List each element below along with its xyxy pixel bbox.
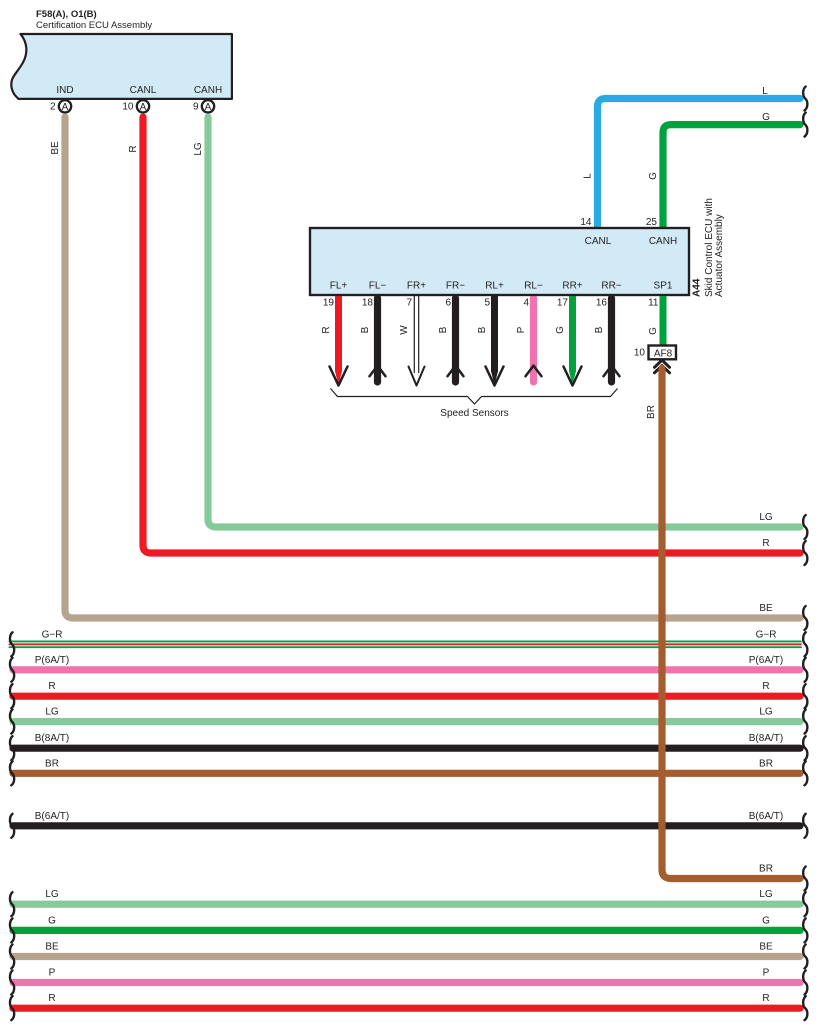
sensor wire FL- pin18 B up-arrow [360,298,386,382]
svg-text:BE: BE [759,603,773,614]
svg-text:B: B [594,326,605,333]
svg-text:P: P [763,968,770,979]
wire G (green) to CANH pin 25 [663,125,800,227]
svg-text:LG: LG [45,707,59,718]
svg-text:P: P [49,968,56,979]
svg-text:LG: LG [45,889,59,900]
bus wire P 2 [13,968,800,983]
svg-text:Actuator Assembly: Actuator Assembly [714,214,725,297]
svg-text:B: B [477,326,488,333]
svg-text:A: A [140,102,147,113]
svg-text:LG: LG [193,142,204,156]
wire G from SP1 pin11 [660,296,667,347]
svg-text:LG: LG [759,707,773,718]
svg-text:10: 10 [122,102,134,113]
sensor wire RL+ pin5 B down-arrow [477,295,504,386]
svg-text:BR: BR [45,758,59,769]
svg-text:CANL: CANL [585,236,612,247]
sensor wire RL- pin4 P up-arrow [516,298,542,382]
wire BR vertical from AF8 [662,369,800,879]
svg-text:L: L [583,173,594,179]
shield chevrons [655,360,670,367]
svg-text:G: G [555,326,566,334]
svg-text:9: 9 [193,102,199,113]
svg-text:LG: LG [759,512,773,523]
svg-text:18: 18 [362,298,374,309]
svg-text:14: 14 [580,217,592,228]
svg-text:R: R [762,681,769,692]
sensor wire RR+ pin17 G down-arrow [555,295,582,386]
svg-text:P: P [516,326,527,333]
svg-text:2: 2 [50,102,56,113]
svg-text:Certification ECU Assembly: Certification ECU Assembly [36,20,152,31]
svg-text:L: L [762,86,768,97]
bus wire LG [13,707,800,722]
svg-text:4: 4 [523,298,529,309]
svg-text:B(8A/T): B(8A/T) [749,733,783,744]
bus wire BE 2 [13,942,800,957]
svg-text:17: 17 [557,298,569,309]
svg-text:B(6A/T): B(6A/T) [35,811,69,822]
svg-text:BE: BE [50,141,61,155]
svg-text:6: 6 [445,298,451,309]
svg-text:G−R: G−R [756,629,777,640]
bus wire B(6A/T) [13,811,800,826]
bus wire B(8A/T) [13,733,800,748]
connector circle A pin 2 [59,100,71,112]
svg-text:W: W [399,325,410,335]
svg-text:AF8: AF8 [654,348,673,359]
svg-text:11: 11 [648,298,659,309]
svg-text:G: G [648,172,659,180]
svg-text:A: A [62,102,69,113]
bus wire P(6A/T) [13,655,800,670]
svg-text:G: G [762,112,770,123]
bus wire G 2 [13,915,800,930]
bus wire LG 2 [13,889,800,904]
svg-text:19: 19 [323,298,335,309]
svg-text:B(6A/T): B(6A/T) [749,811,783,822]
svg-text:LG: LG [759,889,773,900]
svg-text:FL−: FL− [369,281,387,292]
svg-text:P(6A/T): P(6A/T) [35,655,69,666]
svg-text:CANL: CANL [130,85,157,96]
svg-text:R: R [321,326,332,333]
svg-text:RR+: RR+ [562,281,582,292]
bus wire G-R [10,629,802,647]
connector circle A pin 10 [137,100,149,112]
svg-text:25: 25 [646,217,658,228]
svg-text:CANH: CANH [649,236,677,247]
svg-text:B: B [360,326,371,333]
svg-text:RR−: RR− [601,281,621,292]
svg-text:A44: A44 [692,278,703,297]
A44 box border redraw [310,228,689,295]
svg-text:R: R [762,993,769,1004]
svg-text:RL−: RL− [524,281,543,292]
svg-text:G: G [48,915,56,926]
wire L (blue) to CANL pin 14 [598,99,801,227]
svg-text:CANH: CANH [194,85,222,96]
svg-text:16: 16 [596,298,608,309]
svg-text:G: G [648,327,659,335]
svg-text:R: R [48,681,55,692]
svg-text:R: R [48,993,55,1004]
svg-text:BE: BE [45,942,59,953]
svg-text:F58(A), O1(B): F58(A), O1(B) [36,9,97,20]
bus wire BR [13,758,800,773]
svg-text:IND: IND [56,85,73,96]
svg-text:FR−: FR− [446,281,465,292]
bus wire R [13,681,800,696]
svg-text:FL+: FL+ [330,281,348,292]
svg-text:A: A [205,102,212,113]
wire LG from CANH [208,117,800,527]
svg-text:BE: BE [759,942,773,953]
speed sensors brace [331,389,618,405]
svg-text:5: 5 [484,298,490,309]
svg-text:G: G [762,915,770,926]
sensor wire FR- pin6 B up-arrow [438,298,464,382]
svg-text:FR+: FR+ [407,281,426,292]
svg-text:Speed Sensors: Speed Sensors [440,408,508,419]
ECU box A44 Skid Control [310,228,689,295]
svg-text:B: B [438,326,449,333]
sensor wire FL+ pin19 R down-arrow [321,295,348,386]
break squiggles right [803,87,807,1021]
break squiggles left [10,632,14,1020]
svg-text:R: R [128,145,139,152]
wire R from CANL [143,117,800,553]
svg-text:BR: BR [646,405,657,419]
svg-text:SP1: SP1 [654,281,673,292]
bus wire R 2 [13,993,800,1008]
svg-text:7: 7 [406,298,412,309]
svg-text:B(8A/T): B(8A/T) [35,733,69,744]
ECU box F58 Certification ECU Assembly [11,34,232,99]
sensor wire FR+ pin7 W down-arrow [399,295,425,386]
connector AF8 [649,346,677,360]
svg-text:RL+: RL+ [485,281,504,292]
svg-text:G−R: G−R [42,629,63,640]
wire BE from IND [65,117,800,618]
svg-text:BR: BR [759,864,773,875]
svg-text:BR: BR [759,758,773,769]
connector circle A pin 9 [202,100,214,112]
svg-text:R: R [762,538,769,549]
svg-text:P(6A/T): P(6A/T) [749,655,783,666]
svg-text:10: 10 [634,348,646,359]
sensor wire RR- pin16 B up-arrow [594,298,620,382]
